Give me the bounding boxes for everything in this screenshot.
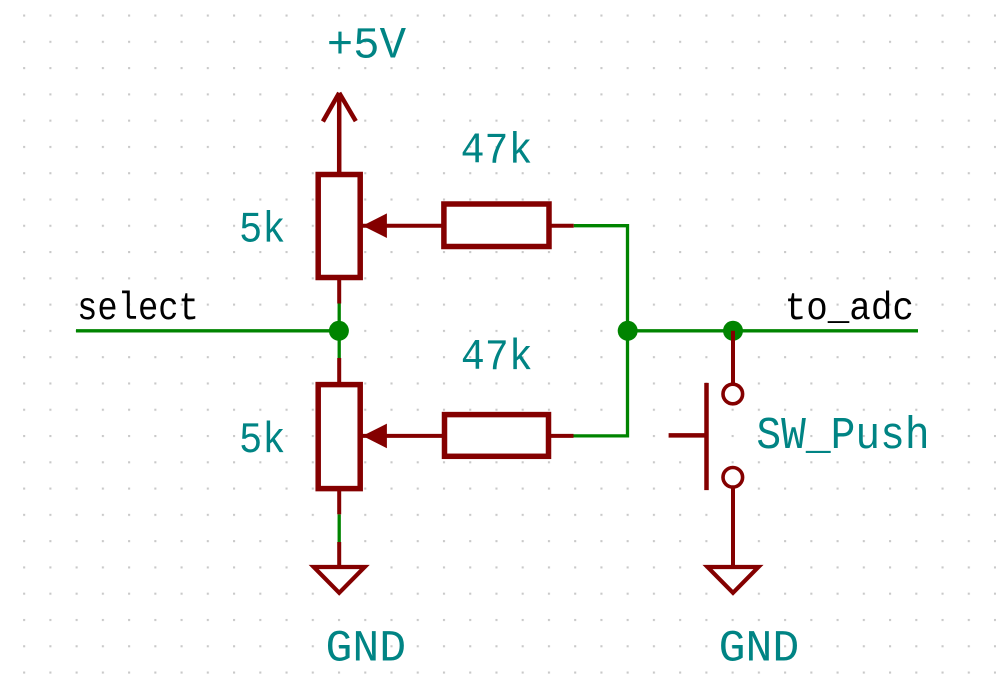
svg-text:to_adc: to_adc <box>785 288 914 332</box>
svg-text:5k: 5k <box>239 207 285 256</box>
svg-text:47k: 47k <box>461 126 533 176</box>
switch SW1 pin top <box>731 331 735 384</box>
wire R1 right to bus corner <box>574 226 628 331</box>
svg-text:SW_Push: SW_Push <box>756 410 929 461</box>
SW1 actuator horizontal <box>669 433 707 438</box>
resistor R1 47k <box>444 204 549 247</box>
RV2 wiper pin <box>363 434 445 438</box>
potentiometer RV1 <box>318 175 360 278</box>
svg-text:GND: GND <box>326 625 407 675</box>
RV2 bottom pin <box>337 489 341 515</box>
ground GND1 lead <box>337 542 341 567</box>
svg-text:GND: GND <box>719 625 800 675</box>
resistor R2 47k <box>445 415 549 457</box>
RV2 top pin <box>337 358 341 385</box>
ground GND1 <box>314 567 365 593</box>
RV1 wiper pin <box>363 224 444 228</box>
SW1 pin bottom <box>731 488 735 567</box>
RV2 wiper arrow <box>363 424 387 449</box>
wire pot1 bottom to junction <box>338 304 341 359</box>
ground GND2 <box>708 567 759 593</box>
svg-text:5k: 5k <box>239 417 285 466</box>
svg-text:+5V: +5V <box>327 21 407 71</box>
R1 right pin <box>549 224 574 228</box>
wire to_adc horizontal <box>628 329 918 332</box>
R2 right pin <box>549 434 574 438</box>
power +5V <box>323 93 356 175</box>
potentiometer RV2 <box>318 385 360 489</box>
svg-text:47k: 47k <box>461 332 533 382</box>
SW1 contact bottom <box>723 468 743 488</box>
RV1 bottom pin <box>337 278 341 304</box>
wire RV2 top from junction <box>338 514 341 542</box>
junction node switch <box>723 321 743 341</box>
svg-text:select: select <box>77 287 199 331</box>
wire select horizontal <box>76 329 339 332</box>
junction node select <box>329 321 349 341</box>
wire R2 right to bus corner <box>574 331 628 436</box>
SW1 actuator vertical <box>704 383 709 490</box>
junction node bus <box>618 321 638 341</box>
SW1 contact top <box>723 384 743 404</box>
RV1 wiper arrow <box>363 213 387 238</box>
